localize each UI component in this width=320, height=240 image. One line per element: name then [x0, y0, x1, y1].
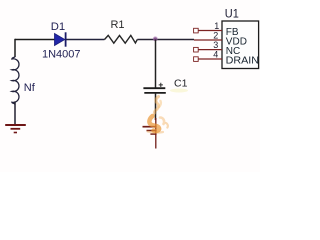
svg-text:1: 1 [214, 21, 219, 31]
svg-text:2: 2 [213, 31, 218, 41]
diode D1 [55, 32, 66, 46]
wire top-left horizontal [15, 39, 55, 41]
capacitor C1 [143, 83, 165, 93]
wire diode to resistor [67, 39, 105, 41]
svg-text:Nf: Nf [24, 82, 36, 94]
pin 1 FB [194, 21, 239, 38]
svg-text:R1: R1 [110, 19, 124, 31]
svg-text:C1: C1 [174, 78, 188, 90]
svg-text:1N4007: 1N4007 [42, 48, 81, 60]
svg-text:D1: D1 [51, 21, 65, 33]
pin 3 NC [194, 40, 241, 57]
svg-text:U1: U1 [225, 8, 239, 20]
wire resistor to U1 pin2 [137, 39, 194, 41]
wire inductor to ground [14, 101, 16, 124]
resistor R1 [105, 35, 138, 43]
yellow smudge under C1 label [170, 89, 188, 93]
ground left [5, 125, 26, 133]
pin 2 VDD [194, 31, 247, 48]
inductor Nf [12, 56, 19, 104]
wire junction down to capacitor [155, 40, 157, 89]
ground under capacitor [143, 118, 157, 149]
junction node [153, 36, 158, 41]
op IC U1 box [222, 21, 259, 69]
svg-text:DRAIN: DRAIN [226, 56, 259, 67]
wire capacitor to ground [155, 93, 157, 120]
wire left vertical [14, 39, 16, 57]
svg-text:4: 4 [213, 50, 218, 60]
pin 4 DRAIN [194, 50, 259, 67]
orange highlight scribble [148, 97, 168, 133]
